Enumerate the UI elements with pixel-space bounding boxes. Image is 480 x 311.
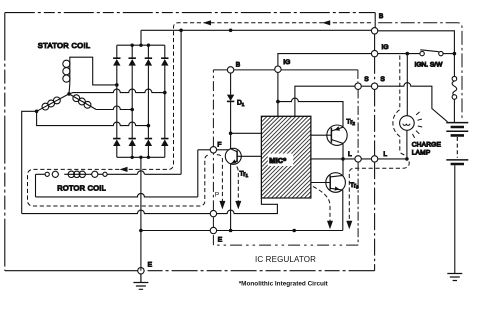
- diode D1 (triangle down, cathode bar): [227, 95, 234, 101]
- wire: S line between pin and terminal: [361, 85, 371, 87]
- svg-text:IGN. S/W: IGN. S/W: [415, 62, 444, 69]
- svg-text:B: B: [236, 62, 241, 69]
- junction dot: switch feed on B wire: [453, 52, 457, 56]
- dashed path: F through regulator down to rails: [217, 155, 223, 204]
- junction dot: MIC B-sense tap: [229, 132, 233, 136]
- transistor Tr2 (lamp driver, PNP): [311, 125, 347, 145]
- junction dot: B rail to rotor feed: [179, 29, 183, 33]
- stator right phase coil: [69, 94, 96, 110]
- dashed path: B wire to battery (after B terminal): [378, 23, 462, 119]
- E terminal circle on bottom border: [138, 268, 144, 274]
- wire: B pin down to D1: [230, 73, 232, 95]
- svg-text:L: L: [348, 151, 352, 158]
- junction dot: E rail at ground tap: [139, 229, 143, 233]
- svg-text:D1: D1: [237, 100, 245, 108]
- wire: Tr3 emitter down and left to E rail: [342, 190, 344, 230]
- svg-text:P: P: [215, 192, 220, 199]
- svg-text:L: L: [383, 151, 387, 158]
- rectifier bottom bus: [117, 156, 165, 158]
- wire: L terminal to lamp junction: [378, 158, 407, 160]
- alternator outer dash-dot border: left edge: [4, 13, 6, 271]
- arrowhead: current flow left (top run 1): [203, 20, 211, 25]
- charge lamp bulb: [400, 116, 415, 131]
- rotor circuit right edge up to F wire: [197, 150, 199, 197]
- charge lamp feed wire: [406, 54, 408, 116]
- wire: IG terminal to regulator IG pin: [278, 54, 372, 66]
- arrowhead: down into P rail (left): [219, 201, 225, 210]
- dashed path: lamp current to Tr3: [349, 162, 409, 224]
- wire: rotor feed from B rail down to rotor coil: [180, 30, 182, 174]
- junction dot: L rail at Tr2/Tr3: [341, 157, 345, 161]
- wire: lamp to L line: [406, 130, 408, 159]
- rectifier ground tap from bottom bus: [140, 157, 142, 270]
- wire: Tr1 emitter down to E rail (hops P rail): [230, 164, 232, 231]
- regulator box top edge through B and IG pins: [213, 69, 358, 71]
- IG terminal circle on border: [371, 50, 377, 56]
- wire: battery negative down: [454, 165, 456, 273]
- svg-text:E: E: [148, 262, 153, 269]
- junction dot: E rail at Tr1/D1 vertical: [229, 229, 233, 233]
- dashed path: Tr1 emitter branch: [237, 167, 239, 205]
- regulator F pin circle: [210, 147, 216, 153]
- svg-text:CHARGE: CHARGE: [412, 141, 442, 148]
- junction dot: lamp to L: [405, 157, 409, 161]
- diode column 4: [161, 45, 168, 157]
- regulator E pin circle: [210, 227, 216, 233]
- P rail: stator phase tap to regulator P pin (hops ground tap and Tr1 line): [22, 198, 278, 214]
- fuse (fusible link): [452, 76, 457, 99]
- junction dot: stator Y point: [67, 92, 71, 96]
- arrowhead: down into P rail (right): [235, 201, 241, 210]
- MIC hatched block: [261, 116, 311, 198]
- alternator outer dash-dot border: bottom edge (dash-dot part right of E terminal): [144, 270, 374, 272]
- svg-text:IG: IG: [283, 59, 290, 66]
- charge lamp rays: [413, 112, 423, 138]
- rectifier diode columns (8 diodes): [113, 45, 168, 157]
- alternator outer dash-dot border: right edge through B IG S L: [374, 13, 377, 271]
- rotor left brush rings: [45, 172, 49, 176]
- wire: IG pin down into MIC: [277, 72, 279, 116]
- E rail: ground tap to regulator and Tr3 emitter return: [141, 230, 343, 232]
- rectifier B+ riser to B rail: [140, 30, 142, 45]
- junction dot: B rail to regulator B pin: [229, 29, 233, 33]
- svg-text:F: F: [217, 141, 221, 148]
- alternator bottom solid E line (left of E terminal): [5, 270, 138, 272]
- B terminal circle on border: [371, 28, 377, 34]
- diode column 2: [129, 45, 136, 157]
- rotor circuit bottom return wire (hops ground tap): [36, 193, 198, 196]
- hop: rotor top wire over ground tap: [137, 171, 144, 174]
- regulator P pin circle: [210, 210, 216, 216]
- stator Y center junction wire: [68, 84, 71, 94]
- B wire from B terminal to battery: [378, 31, 455, 77]
- junction dot: IG branch: [276, 100, 280, 104]
- junction dots on bottom bus: [139, 156, 142, 159]
- wire: Tr2 collector down to L rail: [342, 144, 344, 159]
- wire: D1 cathode down to Tr1 collector: [230, 101, 232, 148]
- arrowhead: current flow left (near rotor): [120, 167, 128, 172]
- stator top phase coil: [63, 59, 70, 84]
- transistor Tr3 (lamp driver, NPN): [311, 173, 346, 193]
- L terminal circle on border: [371, 156, 377, 162]
- IG wire to ignition switch: [378, 53, 420, 55]
- junction dot: E rail at MIC ground pin: [292, 229, 296, 233]
- S sense wire to battery (hops lamp wire): [378, 83, 448, 122]
- dashed path: lamp circuit around bulb: [393, 56, 406, 157]
- rotor coil top wire with slip rings and coil: [36, 173, 182, 175]
- regulator L pin circle: [355, 156, 361, 162]
- rectifier top bus: [117, 44, 165, 46]
- junction dot: right phase to col2: [130, 108, 134, 112]
- ground symbol below battery: [447, 274, 462, 281]
- diode column 3: [145, 45, 152, 157]
- arrowhead: down into E rail (Tr3 left): [327, 221, 333, 230]
- wire: fuse to battery top: [453, 99, 455, 122]
- svg-text:LAMP: LAMP: [412, 149, 431, 156]
- wire: left phase line to col3 (hops over col1 col2): [37, 111, 149, 125]
- junction dot: neutral to col4: [163, 91, 167, 95]
- ignition switch IGN. S/W: [420, 50, 455, 56]
- ground symbol below E terminal: [133, 274, 148, 289]
- junction dot: stator left phase: [35, 110, 39, 114]
- regulator box right edge: [357, 70, 359, 245]
- svg-text:IC REGULATOR: IC REGULATOR: [255, 255, 316, 264]
- stator top coil feed wire to rectifier column 1: [70, 57, 117, 85]
- svg-text:MIC*: MIC*: [269, 156, 286, 165]
- arrowhead: current flow left (top run 2): [322, 20, 330, 25]
- F wire into regulator F pin: [198, 149, 210, 151]
- junction dot: stator coil to col1: [115, 83, 119, 87]
- wire: L dot down to Tr3 collector: [342, 159, 344, 176]
- alternator outer dash-dot border: top edge: [5, 12, 375, 14]
- stator left phase coil: [37, 94, 69, 111]
- svg-text:STATOR COIL: STATOR COIL: [38, 41, 91, 50]
- transistor Tr1 (field driver): [225, 148, 261, 164]
- svg-text:E: E: [218, 237, 223, 244]
- junction dots on top bus: [139, 44, 142, 47]
- wire: neutral phase line to col4 (hops over col1 col2 col3): [69, 89, 165, 94]
- svg-text:Tr1: Tr1: [240, 171, 249, 179]
- junction dot: left phase to col3: [147, 124, 151, 128]
- battery: [446, 123, 468, 164]
- svg-text:S: S: [380, 76, 385, 83]
- svg-text:*Monolithic Integrated Circuit: *Monolithic Integrated Circuit: [239, 280, 329, 287]
- wire: B-sense to MIC left edge: [231, 132, 262, 134]
- svg-text:S: S: [364, 76, 369, 83]
- rotor right brush rings: [92, 171, 98, 177]
- arrowhead: down into E rail (Tr3 right): [346, 221, 352, 230]
- regulator box left edge: [212, 70, 214, 245]
- wire: stator left phase lead down to P rail: [22, 111, 37, 213]
- svg-text:Tr2: Tr2: [346, 118, 355, 126]
- L rail from MIC to L pin: [311, 158, 372, 160]
- S terminal circle on border: [371, 83, 377, 89]
- diode column 1: [113, 45, 120, 157]
- regulator S pin circle: [355, 83, 361, 89]
- regulator box bottom edge: [213, 244, 358, 246]
- dashed path: Tr3 current to E rail: [313, 187, 330, 224]
- wire: IG branch to Tr2 emitter (hops S line): [278, 98, 343, 127]
- svg-text:IG: IG: [382, 44, 389, 51]
- svg-text:ROTOR COIL: ROTOR COIL: [57, 183, 106, 192]
- wire: S sense from MIC top to S pin: [295, 86, 355, 116]
- wire: right phase line to col2 (hops over col1): [96, 106, 133, 110]
- regulator IG pin circle: [275, 66, 281, 72]
- rotor circuit left edge: [35, 174, 37, 197]
- svg-text:B: B: [379, 13, 384, 20]
- regulator B pin circle: [227, 67, 233, 73]
- dashed path: B to rotor (top run): [28, 23, 372, 206]
- wire: F pin to Tr1 collector node: [217, 149, 229, 151]
- rotor coil loops: [64, 171, 89, 177]
- B+ rail from rectifier to B terminal: [141, 29, 371, 31]
- junction dot: charge lamp feed: [406, 52, 410, 56]
